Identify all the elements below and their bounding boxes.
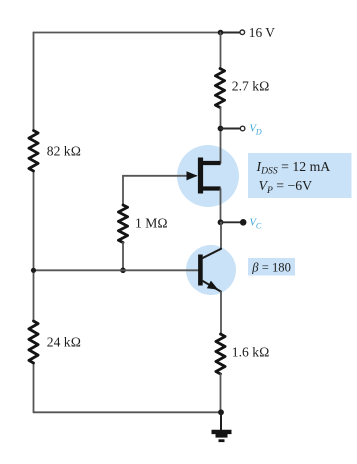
wire gate horizontal	[123, 175, 196, 177]
JFET Q1 drain lead	[203, 161, 221, 165]
junction dot at top rail	[218, 30, 224, 36]
junction dot node VD	[218, 126, 224, 132]
svg-text:1 MΩ: 1 MΩ	[135, 216, 168, 231]
JFET Q1 source lead	[203, 186, 221, 190]
svg-text:16 V: 16 V	[249, 25, 275, 40]
wire emitter to RE	[220, 292, 222, 334]
wire bottom rail	[34, 411, 222, 413]
wire RG bottom to base rail	[122, 243, 124, 271]
resistor R1 82k zigzag	[29, 131, 38, 172]
junction dot left rail-base	[31, 268, 36, 273]
wire VD stub	[221, 128, 241, 130]
wire VC stub	[221, 221, 243, 223]
resistor RD 2.7k zigzag	[215, 69, 224, 108]
wire supply stub	[221, 32, 240, 34]
svg-text:24 kΩ: 24 kΩ	[47, 334, 81, 349]
junction dot bottom rail-ground	[218, 409, 224, 415]
svg-text:82 kΩ: 82 kΩ	[47, 143, 81, 158]
wire left vertical lower	[33, 363, 35, 412]
wire top rail	[34, 32, 221, 34]
wire left vertical upper	[33, 33, 35, 131]
transistor Q2 emitter diagonal	[202, 281, 221, 292]
wire gate vertical to RG	[122, 176, 124, 205]
transistor Q2 emitter arrowhead	[207, 281, 218, 290]
svg-text:1.6 kΩ: 1.6 kΩ	[232, 345, 270, 360]
junction dot node VC	[218, 219, 224, 225]
wire RD bottom to drain	[220, 108, 222, 164]
wire base rail	[34, 269, 199, 271]
node VC terminal dot	[240, 219, 247, 226]
wire left vertical middle	[33, 171, 35, 321]
svg-text:VD: VD	[250, 124, 262, 137]
transistor Q2 body circle	[186, 245, 236, 295]
node 16V terminal circle	[240, 30, 245, 35]
ground bar 3	[219, 439, 225, 442]
JFET Q1 gate arrowhead	[187, 171, 198, 180]
JFET Q1 channel bar	[198, 158, 203, 194]
transistor Q2 base bar	[198, 255, 203, 286]
parameter box IDSS/VP	[248, 153, 352, 198]
svg-text:VP = −6V: VP = −6V	[259, 178, 313, 196]
svg-text:β = 180: β = 180	[251, 260, 291, 274]
node VD terminal circle	[240, 126, 245, 131]
wire source to VC node	[220, 189, 222, 223]
ground stem	[220, 412, 222, 429]
transistor Q2 collector diagonal	[202, 249, 221, 258]
JFET Q1 body circle	[177, 145, 239, 207]
resistor RE 1.6k zigzag	[216, 334, 225, 374]
resistor R2 24k zigzag	[29, 321, 38, 363]
wire RE bottom to ground	[220, 374, 222, 412]
ground bar 2	[216, 434, 228, 438]
ground bar 1	[212, 430, 232, 434]
svg-text:VC: VC	[250, 218, 262, 231]
svg-text:2.7 kΩ: 2.7 kΩ	[232, 78, 270, 93]
parameter box beta	[248, 258, 295, 276]
resistor RG 1M zigzag	[118, 205, 127, 243]
junction dot RG-base rail	[120, 268, 126, 274]
wire collector from VC	[220, 222, 222, 249]
wire right vertical to RD	[220, 33, 222, 69]
